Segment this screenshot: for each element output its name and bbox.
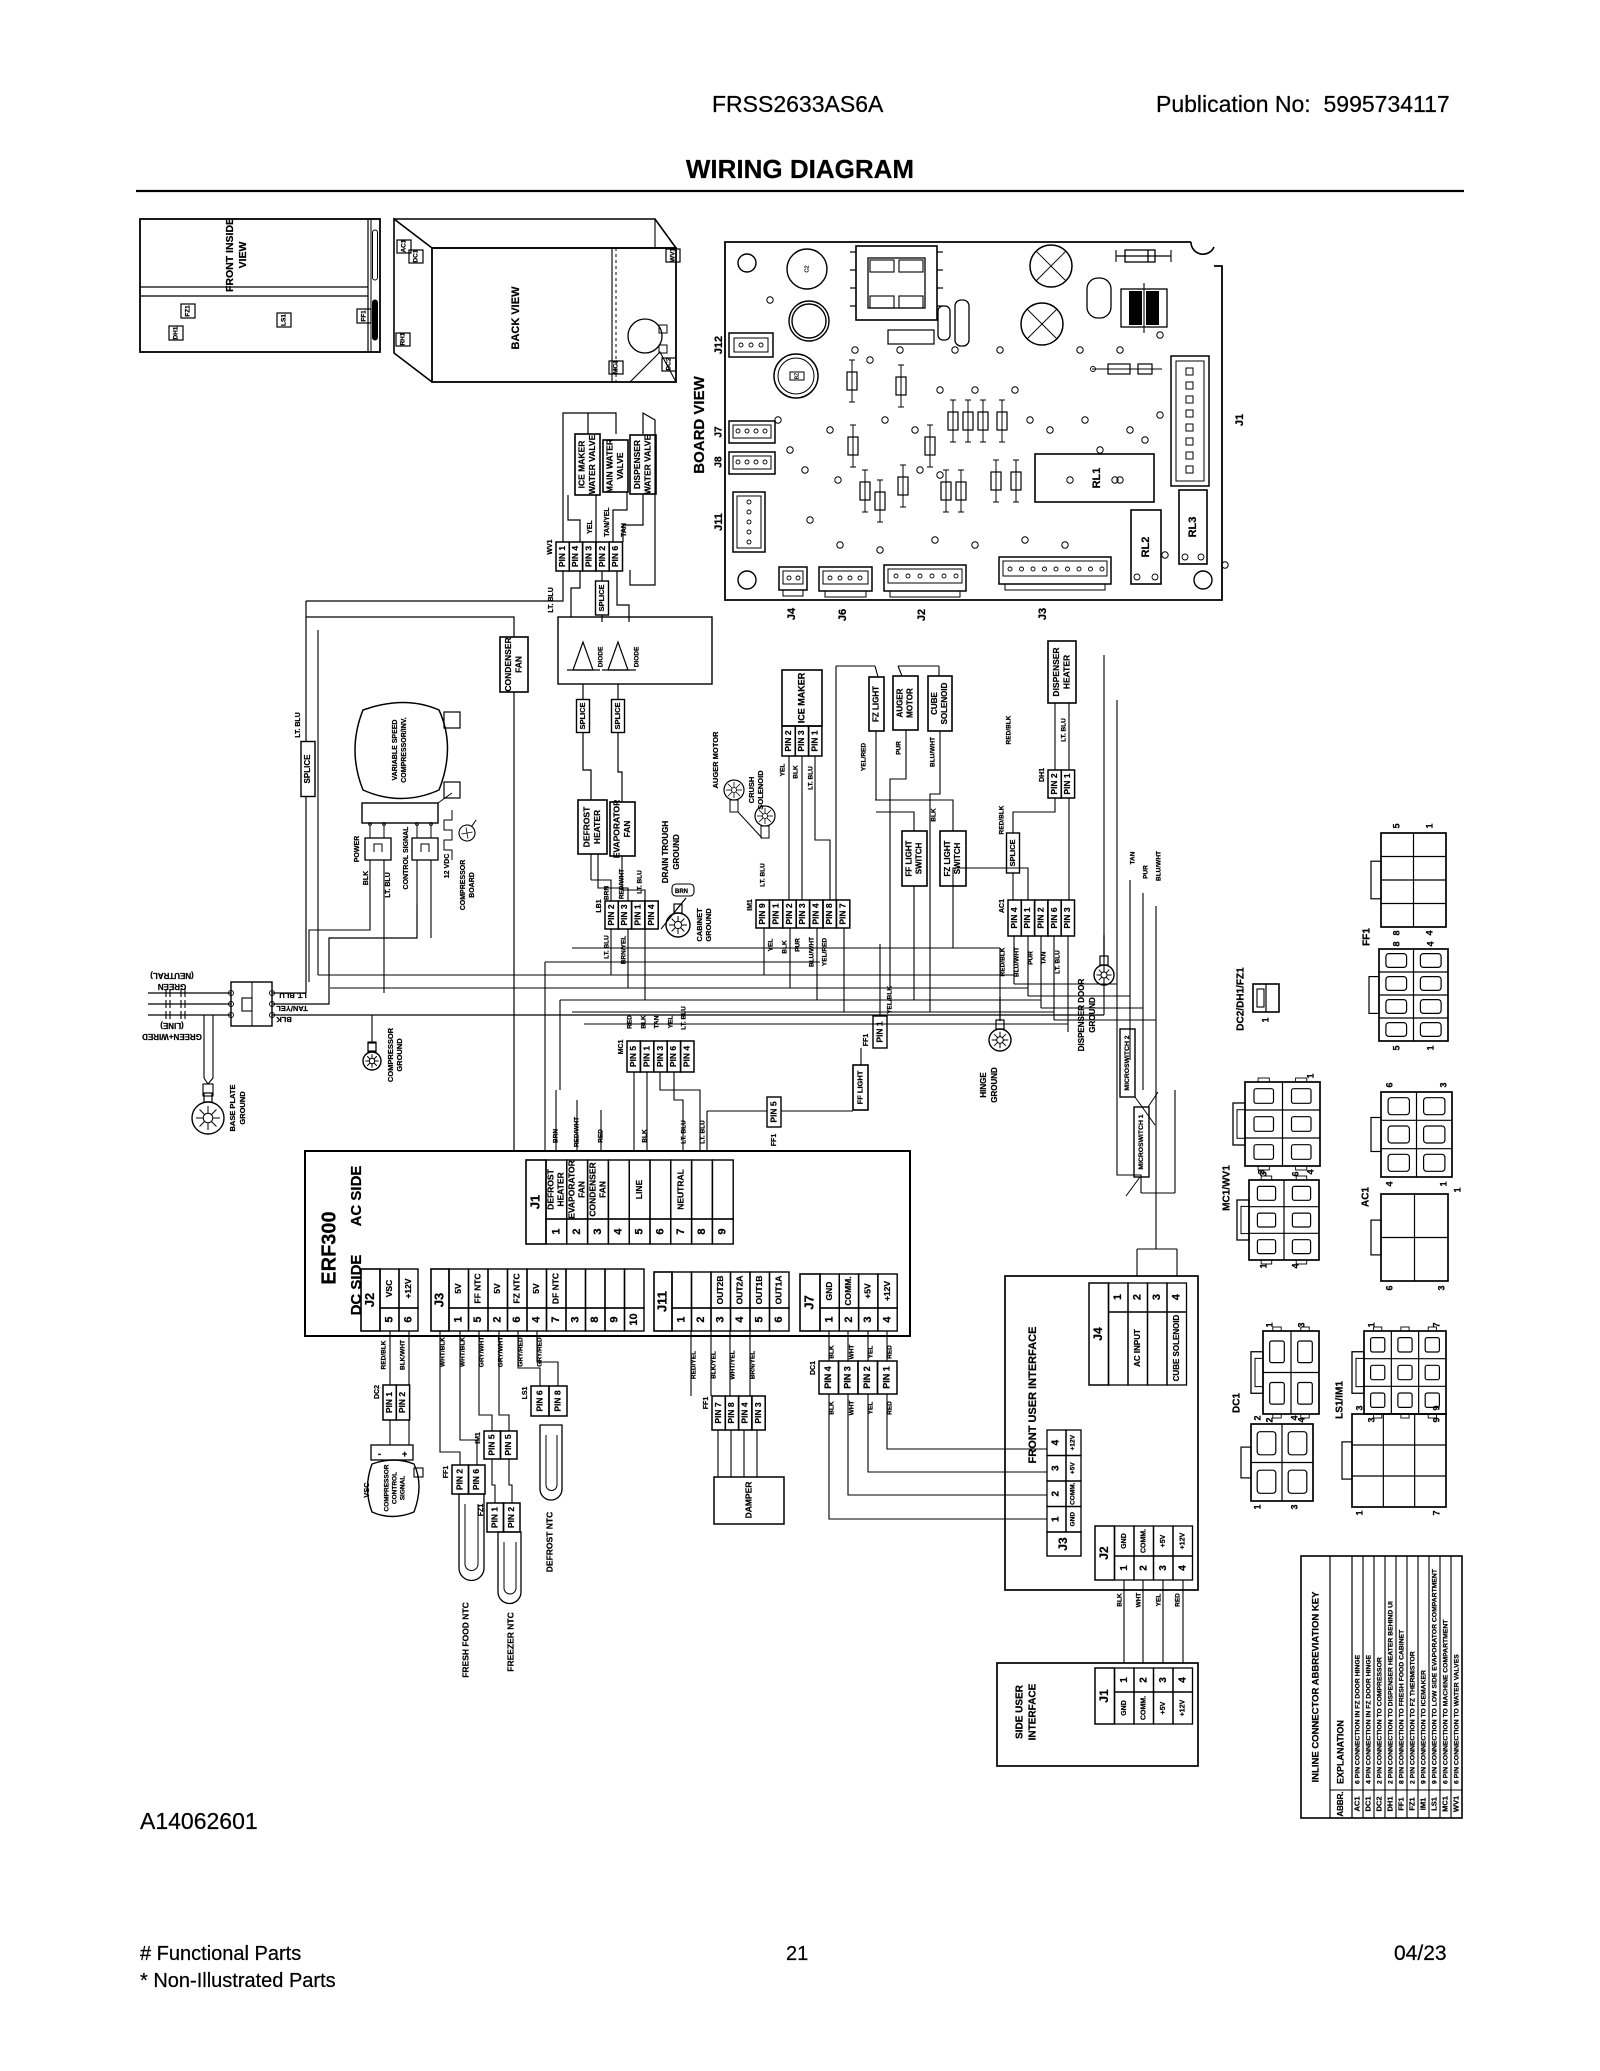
svg-text:BRN/YEL: BRN/YEL: [750, 1351, 757, 1380]
svg-text:CONTROL: CONTROL: [392, 1472, 399, 1504]
svg-text:PIN 2: PIN 2: [597, 546, 607, 568]
node WV1 tag back view: [666, 249, 680, 262]
svg-text:PIN 3: PIN 3: [584, 546, 594, 568]
svg-text:GRY/RED: GRY/RED: [518, 1337, 525, 1367]
svg-text:FZ NTC: FZ NTC: [512, 1273, 522, 1303]
node CUBE SOLENOID box: [928, 676, 952, 731]
wire dispenser ground wire: [1103, 986, 1105, 1000]
connector FF1 dc pins: [452, 1465, 469, 1494]
connector ICE MAKER pins: [782, 726, 795, 756]
svg-text:PIN 5: PIN 5: [768, 1101, 778, 1123]
svg-text:YEL: YEL: [587, 519, 594, 533]
svg-text:BLK: BLK: [829, 1345, 836, 1359]
wire ac1 trunk lines: [1013, 936, 1015, 984]
svg-text:PIN 2: PIN 2: [784, 903, 794, 925]
svg-text:(LINE): (LINE): [160, 1021, 184, 1030]
node board vias: [767, 297, 773, 303]
node LS1 tag front view: [277, 313, 291, 327]
svg-text:LT. BLU: LT. BLU: [681, 1120, 688, 1144]
ground base plate: [204, 1015, 208, 1084]
svg-text:GND: GND: [1121, 1700, 1128, 1716]
connector FF1 face B: [1379, 949, 1448, 1041]
svg-text:DEFROST: DEFROST: [582, 806, 592, 847]
svg-text:DIODE: DIODE: [634, 646, 641, 667]
svg-text:PIN 6: PIN 6: [1049, 907, 1059, 929]
svg-text:AC INPUT: AC INPUT: [1133, 1329, 1142, 1367]
svg-text:3: 3: [570, 1316, 582, 1322]
svg-text:4: 4: [1177, 1565, 1188, 1571]
node board resistors: [852, 425, 854, 467]
svg-text:PIN 2: PIN 2: [783, 730, 793, 752]
connector DC1 face B: [1251, 1424, 1313, 1501]
svg-text:VALVE: VALVE: [615, 452, 625, 479]
wire erf top verticals: [555, 1090, 557, 1151]
node FZ LIGHT SWITCH: [940, 831, 966, 886]
svg-text:CUBE SOLENOID: CUBE SOLENOID: [1172, 1314, 1181, 1381]
svg-text:2: 2: [843, 1316, 855, 1322]
svg-text:BRN: BRN: [604, 886, 611, 900]
svg-text:J1: J1: [1097, 1689, 1111, 1703]
svg-text:2: 2: [1252, 1415, 1262, 1420]
svg-text:4: 4: [1051, 1439, 1062, 1445]
svg-text:LT. BLU: LT. BLU: [604, 935, 611, 959]
svg-text:7: 7: [675, 1228, 687, 1234]
svg-text:FZ LIGHT: FZ LIGHT: [943, 840, 952, 876]
node ICE MAKER box: [782, 670, 822, 726]
svg-text:3: 3: [1158, 1677, 1169, 1683]
svg-text:PIN 3: PIN 3: [655, 1046, 665, 1068]
svg-text:PIN 8: PIN 8: [824, 903, 834, 925]
connector table J1 sui: [1095, 1668, 1115, 1724]
svg-text:PIN 3: PIN 3: [796, 730, 806, 752]
svg-text:IM1: IM1: [475, 1432, 482, 1444]
node board view outline: [725, 242, 1222, 600]
svg-text:PIN 4: PIN 4: [1009, 907, 1019, 929]
svg-text:12 VDC: 12 VDC: [444, 854, 451, 879]
svg-text:PIN 1: PIN 1: [490, 1507, 500, 1529]
svg-text:2 PIN CONNECTION TO FZ THERMIS: 2 PIN CONNECTION TO FZ THERMISTOR: [1409, 1651, 1416, 1784]
svg-text:FZ1: FZ1: [1407, 1797, 1416, 1810]
wire bus horizontal 2: [330, 987, 1028, 989]
svg-text:FRESH FOOD NTC: FRESH FOOD NTC: [460, 1602, 470, 1678]
svg-text:DF NTC: DF NTC: [551, 1273, 561, 1304]
svg-text:2: 2: [1138, 1565, 1149, 1571]
connector MC1 face A: [1245, 1082, 1320, 1166]
node compressor plug power: [365, 838, 391, 860]
resistor R10 board: [1092, 368, 1162, 370]
svg-text:GROUND: GROUND: [990, 1067, 999, 1103]
svg-text:WV1: WV1: [547, 539, 554, 554]
svg-text:1: 1: [1112, 1294, 1124, 1300]
svg-text:SPLICE: SPLICE: [1008, 839, 1017, 866]
svg-text:3: 3: [1289, 1504, 1299, 1509]
node MC1 tag back view: [609, 361, 623, 374]
node drawing number: [140, 1808, 1447, 1992]
node DEFROST HEATER: [578, 800, 607, 854]
wire AC input lines: [148, 992, 231, 994]
wire im1 to fz1: [492, 1459, 495, 1503]
svg-text:1: 1: [1425, 1045, 1435, 1050]
wire icemaker down: [788, 756, 790, 900]
svg-text:LT. BLU: LT. BLU: [681, 1006, 688, 1030]
wire auger motor down: [890, 730, 906, 988]
connector table J4 fui: [1089, 1283, 1109, 1385]
wire mc1 to erf: [633, 1072, 635, 1151]
node crush solenoid symbol: [755, 806, 775, 826]
svg-text:PIN 4: PIN 4: [646, 904, 656, 926]
svg-text:LT. BLU: LT. BLU: [808, 766, 815, 790]
svg-text:HINGE: HINGE: [979, 1072, 988, 1098]
svg-text:PIN 1: PIN 1: [384, 1392, 394, 1414]
svg-text:PIN 7: PIN 7: [713, 1402, 723, 1424]
node DISPENSER WATER VALVE: [630, 435, 656, 494]
connector FF1 PIN1 tag: [873, 1016, 887, 1048]
svg-text:WATER VALVE: WATER VALVE: [643, 434, 653, 494]
connector DC1 face A: [1263, 1331, 1319, 1414]
svg-text:FREEZER NTC: FREEZER NTC: [505, 1612, 515, 1672]
svg-text:1: 1: [550, 1228, 562, 1234]
svg-text:MAIN WATER: MAIN WATER: [605, 439, 615, 493]
svg-text:J1: J1: [527, 1195, 542, 1209]
connector J3 board: [999, 557, 1111, 584]
svg-text:BASE PLATE: BASE PLATE: [228, 1085, 237, 1132]
svg-text:COMM.: COMM.: [843, 1276, 853, 1305]
svg-text:SPLICE: SPLICE: [613, 702, 622, 729]
svg-text:BLK: BLK: [782, 940, 789, 954]
svg-text:9 PIN CONNECTION TO ICEMAKER: 9 PIN CONNECTION TO ICEMAKER: [1420, 1670, 1427, 1784]
wire ff1pin1: [887, 940, 905, 1020]
svg-text:TAN: TAN: [1041, 951, 1048, 964]
svg-text:2 PIN CONNECTION TO DISPENSER: 2 PIN CONNECTION TO DISPENSER HEATER BEH…: [1387, 1601, 1394, 1784]
svg-text:COMM.: COMM.: [1141, 1696, 1148, 1720]
svg-text:LT. BLU: LT. BLU: [637, 870, 644, 894]
svg-text:+12V: +12V: [1180, 1532, 1187, 1549]
svg-text:3: 3: [1436, 1285, 1446, 1290]
ground compressor gnd: [371, 1015, 373, 1042]
wire fui to sui: [1123, 1580, 1125, 1663]
svg-text:TAN/YEL: TAN/YEL: [604, 507, 611, 537]
wire WV1 harness loop: [563, 413, 616, 542]
svg-text:DC2: DC2: [1374, 1796, 1383, 1811]
svg-text:9: 9: [1431, 1405, 1441, 1410]
svg-text:RL1: RL1: [1091, 468, 1103, 489]
svg-text:AC1: AC1: [1352, 1796, 1361, 1811]
svg-text:PIN 6: PIN 6: [668, 1046, 678, 1068]
svg-text:BOARD: BOARD: [469, 872, 476, 898]
svg-text:PIN 5: PIN 5: [487, 1434, 497, 1456]
svg-text:IM1: IM1: [1418, 1798, 1427, 1811]
svg-text:4: 4: [881, 1316, 893, 1323]
connector table J7 erf: [800, 1274, 820, 1331]
connector J1 board: [1171, 356, 1209, 486]
diode D-wv1: [558, 617, 712, 684]
svg-text:+12V: +12V: [882, 1281, 892, 1301]
svg-text:PIN 4: PIN 4: [682, 1046, 692, 1068]
node FF1 tag front view: [357, 309, 371, 323]
svg-text:NEUTRAL: NEUTRAL: [675, 1169, 685, 1210]
svg-text:1: 1: [1252, 1504, 1262, 1509]
svg-text:GREEN: GREEN: [158, 982, 187, 991]
wire ac neutral to splice trunk: [272, 992, 306, 994]
svg-text:1: 1: [1305, 1073, 1315, 1078]
svg-text:PIN 2: PIN 2: [1036, 907, 1046, 929]
svg-text:PIN 3: PIN 3: [843, 1366, 853, 1389]
svg-text:LS1: LS1: [522, 1386, 529, 1399]
svg-text:MC1: MC1: [613, 360, 620, 374]
svg-text:1: 1: [1119, 1677, 1130, 1683]
svg-text:4: 4: [1171, 1293, 1183, 1300]
svg-text:LT. BLU: LT. BLU: [548, 587, 555, 613]
ground compressor board gnd sym: [456, 815, 483, 844]
svg-text:SWITCH: SWITCH: [953, 843, 962, 875]
svg-text:INLINE CONNECTOR ABBREVIATION: INLINE CONNECTOR ABBREVIATION KEY: [1311, 1591, 1322, 1783]
svg-text:FF1: FF1: [703, 1397, 710, 1410]
svg-text:AC1: AC1: [999, 899, 1006, 913]
svg-text:BLK: BLK: [829, 1401, 836, 1415]
svg-text:FAN: FAN: [597, 1181, 607, 1198]
svg-text:OUT1B: OUT1B: [754, 1276, 764, 1305]
connector FF1 face A: [1381, 833, 1446, 927]
svg-text:J6: J6: [837, 609, 849, 621]
svg-text:4: 4: [1289, 1415, 1299, 1420]
svg-text:J7: J7: [714, 426, 725, 438]
svg-text:DC1: DC1: [413, 249, 420, 262]
svg-text:(NEUTRAL): (NEUTRAL): [150, 971, 194, 980]
svg-text:PIN 1: PIN 1: [770, 903, 780, 925]
wire header rule: [136, 190, 1464, 192]
svg-text:2: 2: [1138, 1677, 1149, 1683]
connector FF1 PIN5 tag: [767, 1097, 781, 1127]
svg-text:6: 6: [1290, 1171, 1300, 1176]
svg-text:PIN 7: PIN 7: [837, 903, 847, 925]
wire right trunk verticals: [1103, 655, 1105, 1015]
connector WV1 pin row: [556, 542, 569, 571]
svg-text:DEFROST: DEFROST: [546, 1168, 556, 1209]
svg-text:LT. BLU: LT. BLU: [760, 863, 767, 887]
svg-text:6 PIN CONNECTION TO WATER VALV: 6 PIN CONNECTION TO WATER VALVES: [1453, 1654, 1460, 1784]
svg-text:J8: J8: [714, 456, 725, 468]
svg-text:6: 6: [654, 1228, 666, 1234]
connector FZ1 dc pins: [487, 1503, 504, 1532]
ground cabinet: [677, 904, 679, 906]
svg-text:4: 4: [531, 1316, 543, 1323]
svg-text:4: 4: [1384, 1181, 1394, 1186]
node compressor plug signal: [412, 838, 438, 860]
wire bus verticals left: [559, 1000, 561, 1090]
svg-text:YEL/RED: YEL/RED: [822, 938, 829, 966]
svg-text:6: 6: [773, 1316, 785, 1322]
svg-text:+5V: +5V: [1160, 1701, 1167, 1714]
svg-text:MOTOR: MOTOR: [906, 688, 915, 718]
svg-text:TAN/YEL: TAN/YEL: [276, 1004, 308, 1013]
svg-text:J4: J4: [786, 607, 798, 620]
connector table J1 erf: [526, 1160, 546, 1244]
svg-text:COMM.: COMM.: [1141, 1529, 1148, 1553]
wire cube solenoid down: [930, 731, 940, 1012]
connector J6 board: [819, 567, 872, 591]
svg-text:BLK: BLK: [276, 1015, 292, 1024]
svg-text:J3: J3: [431, 1293, 446, 1307]
node ICE MAKER WATER VALVE: [575, 434, 600, 495]
svg-text:SPLICE: SPLICE: [597, 584, 606, 611]
svg-text:1: 1: [1051, 1516, 1062, 1522]
node compressor board strip: [362, 803, 438, 823]
svg-text:PIN 1: PIN 1: [1062, 773, 1072, 795]
svg-text:* Non-Illustrated Parts: * Non-Illustrated Parts: [140, 1970, 336, 1992]
svg-text:DEFROST NTC: DEFROST NTC: [544, 1512, 554, 1572]
svg-text:YEL: YEL: [780, 764, 787, 777]
svg-text:PIN 5: PIN 5: [503, 1434, 513, 1456]
connector DC2 pins: [383, 1385, 396, 1420]
svg-text:5: 5: [754, 1316, 766, 1322]
connector table J3 erf: [431, 1269, 449, 1331]
svg-text:SOLENOID: SOLENOID: [940, 682, 949, 724]
connector J12 board: [729, 333, 773, 357]
svg-text:-: -: [378, 1449, 381, 1459]
node DISPENSER HEATER: [1048, 641, 1076, 703]
svg-text:PUR: PUR: [1028, 951, 1035, 965]
transformer core black board: [1227, 0, 1229, 1]
svg-text:1: 1: [1119, 1565, 1130, 1571]
svg-text:PIN 2: PIN 2: [506, 1507, 516, 1529]
diode D-wv2: [608, 642, 628, 670]
svg-text:J2: J2: [1097, 1546, 1111, 1560]
svg-text:PIN 4: PIN 4: [823, 1366, 833, 1389]
svg-text:9 PIN CONNECTION TO LOW SIDE E: 9 PIN CONNECTION TO LOW SIDE EVAPORATOR …: [1431, 1568, 1438, 1784]
svg-text:COMPRESSOR: COMPRESSOR: [460, 860, 467, 911]
wire front view door strip: [371, 219, 380, 352]
svg-text:VSC: VSC: [384, 1280, 394, 1297]
svg-text:OUT2B: OUT2B: [715, 1276, 725, 1305]
svg-text:RED/BLK: RED/BLK: [1006, 715, 1013, 744]
svg-text:4: 4: [1305, 1169, 1315, 1174]
svg-text:PIN 5: PIN 5: [628, 1046, 638, 1068]
node FF LIGHT tag: [853, 1065, 868, 1110]
connector J2 board: [884, 565, 966, 591]
svg-text:BLK: BLK: [793, 765, 800, 779]
svg-text:1: 1: [1264, 1322, 1274, 1327]
wire splice to defrost: [583, 733, 591, 800]
component oval board: [1087, 278, 1111, 318]
connector AC1 face B: [1381, 1194, 1448, 1281]
svg-text:4: 4: [1425, 941, 1435, 946]
svg-text:J4: J4: [1091, 1327, 1105, 1341]
wire j7 down: [828, 1331, 830, 1361]
svg-text:YEL/RED: YEL/RED: [861, 743, 868, 771]
svg-text:PIN 3: PIN 3: [1062, 907, 1072, 929]
svg-text:PIN 1: PIN 1: [633, 904, 643, 926]
svg-text:WHT/BLK: WHT/BLK: [460, 1337, 467, 1367]
connector J7 board: [729, 421, 775, 443]
svg-text:PIN 8: PIN 8: [552, 1390, 562, 1412]
svg-text:LT. BLU: LT. BLU: [1061, 718, 1068, 742]
wire microswitch levers: [1135, 1097, 1155, 1125]
capacitor C2 board: [789, 301, 829, 341]
connector LB1 pin row: [605, 901, 618, 929]
svg-text:TAN: TAN: [654, 1015, 661, 1028]
svg-text:EXPLANATION: EXPLANATION: [1335, 1720, 1345, 1784]
svg-text:LS1/IM1: LS1/IM1: [1335, 1381, 1346, 1419]
node DH1 tag front view: [169, 326, 183, 340]
svg-text:RED/WHT: RED/WHT: [619, 869, 626, 899]
svg-text:3: 3: [1258, 1171, 1268, 1176]
svg-text:RED: RED: [887, 1401, 894, 1415]
svg-text:AUGER MOTOR: AUGER MOTOR: [711, 731, 720, 789]
thermistor DEFROST NTC: [540, 1425, 562, 1500]
svg-text:RED: RED: [627, 1015, 634, 1029]
svg-text:PIN 2: PIN 2: [455, 1469, 465, 1491]
svg-text:7: 7: [1431, 1510, 1441, 1515]
svg-text:BLK: BLK: [1117, 1593, 1124, 1607]
svg-text:PIN 4: PIN 4: [740, 1402, 750, 1424]
svg-text:BOARD VIEW: BOARD VIEW: [691, 375, 708, 473]
svg-text:FAN: FAN: [514, 656, 524, 673]
svg-text:DISPENSER DOOR: DISPENSER DOOR: [1077, 979, 1086, 1052]
svg-text:5: 5: [472, 1316, 484, 1322]
svg-text:2: 2: [1132, 1294, 1144, 1300]
node VARIABLE SPEED COMPRESSOR: [355, 703, 448, 799]
svg-text:FF1: FF1: [863, 1034, 870, 1047]
wire ac blk run: [272, 1014, 1104, 1016]
svg-text:MC1/WV1: MC1/WV1: [1222, 1165, 1233, 1211]
wire WV1 pin4 loop: [571, 571, 580, 617]
svg-text:DC2: DC2: [374, 1385, 381, 1399]
connector J8 board: [729, 452, 775, 474]
connector AC1 pin row: [1008, 900, 1021, 936]
svg-text:BRN: BRN: [675, 889, 688, 895]
svg-text:3: 3: [1296, 1322, 1306, 1327]
svg-text:1: 1: [824, 1316, 836, 1322]
wire switches: [876, 812, 914, 831]
svg-text:COMM.: COMM.: [1070, 1482, 1077, 1505]
svg-text:3: 3: [862, 1316, 874, 1322]
svg-text:PIN 6: PIN 6: [534, 1390, 544, 1412]
node header: [686, 91, 1450, 184]
connector IM1 dc pins: [484, 1431, 501, 1459]
svg-text:CONDENSER: CONDENSER: [587, 1162, 597, 1216]
wire compressor power down: [309, 860, 370, 982]
svg-text:PIN 2: PIN 2: [606, 904, 616, 926]
svg-text:7: 7: [550, 1316, 562, 1322]
svg-text:FZ LIGHT: FZ LIGHT: [872, 686, 881, 722]
svg-text:2 PIN CONNECTION TO COMPRESSOR: 2 PIN CONNECTION TO COMPRESSOR: [1376, 1657, 1383, 1784]
svg-text:BLK: BLK: [641, 1015, 648, 1029]
node compressor bump back view: [628, 319, 662, 353]
capacitor C3 board crossed: [1030, 245, 1072, 287]
splice SP2: [577, 700, 590, 733]
connector LS1 face B: [1352, 1414, 1446, 1507]
node FF LIGHT SWITCH: [902, 831, 927, 886]
wire ff light horizontal: [707, 1110, 853, 1112]
svg-text:+12V: +12V: [403, 1278, 413, 1298]
svg-text:DIODE: DIODE: [598, 646, 605, 667]
svg-text:2: 2: [695, 1316, 707, 1322]
svg-text:4: 4: [1177, 1677, 1188, 1683]
wire bus horizontal 3: [560, 999, 1041, 1001]
svg-text:MC1: MC1: [1440, 1796, 1449, 1812]
capacitor C1 board: [787, 249, 827, 289]
svg-text:LT. BLU: LT. BLU: [700, 1120, 707, 1144]
svg-text:PIN 2: PIN 2: [397, 1392, 407, 1414]
svg-text:SPLICE: SPLICE: [303, 754, 312, 784]
svg-text:FF1: FF1: [771, 1134, 778, 1147]
svg-text:DC1: DC1: [1232, 1393, 1243, 1413]
svg-text:EVAPORATOR: EVAPORATOR: [612, 800, 622, 859]
svg-text:DISPENSER: DISPENSER: [632, 440, 642, 489]
connector table J3 fui: [1047, 1430, 1066, 1456]
component choke board: [938, 306, 950, 340]
connector LS1 face A: [1364, 1331, 1446, 1414]
